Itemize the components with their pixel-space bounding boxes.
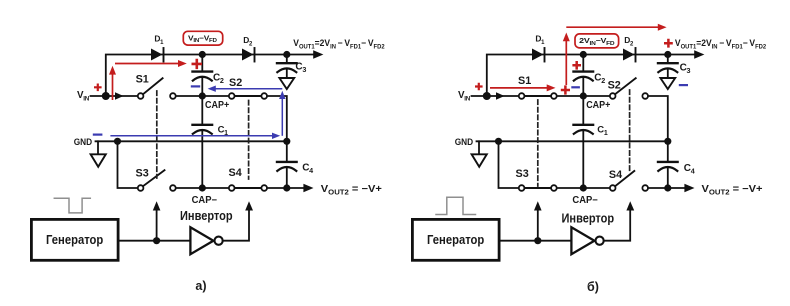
switch S2 b (open) <box>610 93 616 99</box>
wire GND row b <box>477 140 668 142</box>
capacitor C4 a <box>286 141 288 161</box>
control arrow left b <box>537 210 539 241</box>
wire generator to inverter b <box>499 240 571 242</box>
wire top rail b <box>487 55 695 97</box>
capacitor C4 b <box>667 141 669 161</box>
svg-text:S2: S2 <box>229 77 242 89</box>
node VOUT1 arrowhead a <box>313 50 323 59</box>
red arrow S1 row b <box>490 87 548 89</box>
arrowhead VOUT2 b <box>684 184 694 192</box>
capacitor C2 b <box>582 55 584 72</box>
dashed control line S2-S4 b <box>629 90 631 171</box>
node on control wire a <box>153 237 160 244</box>
inverter U1 a <box>190 227 213 254</box>
svg-text:Инвертор: Инвертор <box>562 210 615 225</box>
wire S3 to CAP- a <box>176 187 228 189</box>
blue minus at CAP+ b <box>571 86 580 88</box>
wire Vin row a <box>91 95 138 97</box>
svg-text:CAP−: CAP− <box>572 195 598 206</box>
diode D2 b <box>623 49 634 61</box>
svg-text:GND: GND <box>455 137 474 147</box>
svg-text:Генератор: Генератор <box>46 232 103 247</box>
arrow on Vin wire b <box>496 92 505 99</box>
switch S2 a (closed) <box>229 93 235 99</box>
red plus at C2 a <box>192 59 203 69</box>
svg-text:S1: S1 <box>136 74 149 86</box>
diode D2 a <box>242 49 253 61</box>
control arrow right b <box>626 201 634 210</box>
ground symbol a <box>97 141 99 154</box>
svg-text:S4: S4 <box>229 167 242 179</box>
wire GND row a <box>96 140 287 142</box>
wire inverter out a <box>223 210 249 241</box>
red label box 2VIN-VFD b <box>575 34 619 48</box>
red annotations a <box>94 31 223 100</box>
diode D1 b <box>532 49 543 61</box>
svg-text:Генератор: Генератор <box>427 232 484 247</box>
wire inverter out b <box>604 210 630 241</box>
switch S1 a (open) <box>138 93 144 99</box>
red label box VIN-VFD a <box>183 31 222 45</box>
svg-text:CAP+: CAP+ <box>205 100 230 111</box>
red plus at VOUT1 b <box>664 39 673 48</box>
control arrow left a <box>156 210 158 241</box>
svg-text:GND: GND <box>74 137 93 147</box>
red plus at CAP+ b <box>561 85 570 94</box>
blue annotations b <box>571 85 688 87</box>
switch S1 b (closed) <box>519 93 525 99</box>
red arrow vertical b <box>565 41 567 86</box>
blue current path vertical a <box>281 99 283 136</box>
svg-text:б): б) <box>587 280 599 294</box>
wire S2 to right rail a <box>268 96 287 141</box>
wire S1 to CAP+ a <box>176 95 228 97</box>
wire Vin row b <box>472 95 519 97</box>
node dots a <box>199 51 206 58</box>
blue annotations a <box>93 86 286 140</box>
dashed control line S1-S3 a <box>156 91 158 178</box>
pulse symbol b (positive) <box>436 197 476 214</box>
blue minus at GND a <box>93 134 103 136</box>
blue current path lower a <box>110 135 272 137</box>
generator box b <box>412 219 499 260</box>
ground symbol b <box>478 141 480 154</box>
red annotations b <box>475 24 673 95</box>
arrowhead VOUT1 b <box>694 50 704 59</box>
arrowhead VOUT2 a <box>303 184 313 192</box>
wire S4 to VOUT2 b <box>649 187 685 189</box>
capacitor C1 a <box>201 96 203 124</box>
wire S3 to CAP- b <box>557 187 609 189</box>
node on control wire b <box>534 237 541 244</box>
inverter U2 b <box>571 227 594 254</box>
dashed control line S1-S3 b <box>537 100 539 186</box>
svg-text:S2: S2 <box>608 79 621 91</box>
text labels a <box>46 33 385 293</box>
svg-text:S3: S3 <box>136 168 149 180</box>
wire S4 to VOUT2 a <box>268 187 304 189</box>
red arrow horizontal a <box>115 63 180 65</box>
svg-text:S1: S1 <box>518 75 531 87</box>
switch S3 b (closed) <box>519 185 525 191</box>
capacitor C1 b <box>582 96 584 124</box>
wire S2 to right rail b <box>649 96 668 141</box>
red plus at VIN a <box>94 84 102 92</box>
generator box a <box>31 219 118 260</box>
svg-text:CAP+: CAP+ <box>586 100 611 111</box>
red plus above C2 b <box>572 61 581 70</box>
blue minus at C2 a <box>191 85 200 87</box>
ground under C3 a <box>279 78 294 89</box>
red plus at VIN b <box>475 83 483 91</box>
red arrow top b <box>566 26 659 28</box>
svg-text:CAP−: CAP− <box>192 195 218 206</box>
wire GND node down b <box>499 141 519 188</box>
switch S3 a (open) <box>138 185 144 191</box>
arrow on Vin wire a <box>115 92 124 99</box>
svg-text:S4: S4 <box>609 169 622 181</box>
diode D1 a <box>151 49 162 61</box>
svg-text:а): а) <box>195 279 206 293</box>
switch S4 a (closed) <box>229 185 235 191</box>
svg-text:S3: S3 <box>516 168 529 180</box>
capacitor C2 a <box>201 55 203 72</box>
wire generator to inverter a <box>118 240 190 242</box>
node dots b <box>580 51 587 58</box>
blue current path upper a <box>216 88 283 90</box>
switch S4 b (open) <box>610 185 616 191</box>
svg-text:Инвертор: Инвертор <box>180 208 233 223</box>
dashed control line S2-S4 a <box>248 101 250 180</box>
capacitor C3 a <box>286 55 288 63</box>
pulse symbol a (negative) <box>54 198 90 213</box>
wire GND node down a <box>118 141 138 188</box>
capacitor C3 b <box>667 55 669 63</box>
red arrow vertical a <box>112 74 114 101</box>
blue minus under C3 ground b <box>679 84 688 86</box>
wire S1 to CAP+ b <box>557 95 609 97</box>
ground under C3 b <box>660 78 675 89</box>
wire top rail a <box>106 55 314 97</box>
text labels b <box>427 34 767 295</box>
control arrow right a <box>245 201 253 210</box>
